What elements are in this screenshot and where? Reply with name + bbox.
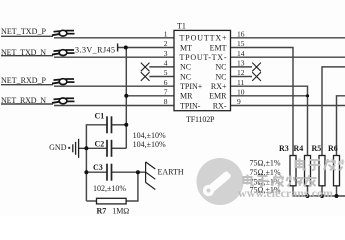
svg-text:EARTH: EARTH <box>158 168 184 177</box>
wire pin15 <box>231 48 294 156</box>
svg-text:TPOUT-TX-: TPOUT-TX- <box>180 53 227 62</box>
wire NET_TXD_P row1 left <box>1 35 53 37</box>
svg-text:TPIN+: TPIN+ <box>180 82 203 91</box>
svg-text:RX+: RX+ <box>211 82 227 91</box>
op-amp U1 : IC body T1 <box>174 30 231 110</box>
svg-text:1: 1 <box>164 30 168 39</box>
wire C1 right <box>112 124 127 126</box>
wire bottom rail <box>293 186 345 196</box>
wire NET_RXD_N row8 left <box>1 103 53 105</box>
svg-text:R3: R3 <box>279 144 289 153</box>
no-connect X pin4 <box>141 63 150 72</box>
pin names inside IC <box>180 34 228 111</box>
no-connect X pin12 <box>252 72 261 81</box>
wire pin14 to right edge <box>231 56 345 58</box>
wire R5 bottom <box>321 186 323 196</box>
coupling symbol row6 <box>52 79 75 85</box>
svg-text:3.3V_RJ45: 3.3V_RJ45 <box>75 46 115 55</box>
node pin10 tap <box>306 94 309 97</box>
wire C2 left <box>86 147 107 149</box>
wire pin16 to right edge <box>231 37 345 39</box>
svg-text:GND: GND <box>49 143 67 152</box>
wire net R6 from right edge <box>337 96 345 156</box>
svg-text:TF1102P: TF1102P <box>186 115 215 124</box>
svg-text:102,±10%: 102,±10% <box>93 184 126 193</box>
svg-text:TPIN-: TPIN- <box>180 101 201 110</box>
resistor R7 body <box>97 198 127 204</box>
wire pin11 <box>231 86 308 155</box>
resistor R6 body <box>334 156 340 186</box>
wire pin4 stub <box>149 66 174 68</box>
wire C3 left <box>86 171 107 173</box>
wire pin5 stub <box>149 76 174 78</box>
node 3.3V tap <box>124 46 128 50</box>
svg-text:NET_RXD_N: NET_RXD_N <box>1 96 46 105</box>
node rail R6 <box>335 194 339 198</box>
svg-text:www.elecrans.com: www.elecrans.com <box>238 186 333 200</box>
svg-text:NET_TXD_N: NET_TXD_N <box>1 48 46 57</box>
coupling symbol row3 <box>52 50 75 56</box>
wire 3.3V to pin2 <box>118 47 174 49</box>
resistor R3 body <box>290 156 296 186</box>
node C3 right <box>136 170 140 174</box>
watermark logo circle <box>197 158 244 205</box>
svg-text:R5: R5 <box>312 144 322 153</box>
svg-text:NC: NC <box>180 72 191 81</box>
svg-text:R4: R4 <box>294 144 304 153</box>
power port 3.3V_RJ45 bar <box>117 44 119 52</box>
node C2 left GND <box>84 146 88 150</box>
svg-text:7: 7 <box>164 88 168 97</box>
svg-text:1MΩ: 1MΩ <box>112 207 129 216</box>
capacitor C2 <box>107 140 112 157</box>
svg-text:NC: NC <box>180 63 191 72</box>
wire C3 right to earth <box>112 171 146 173</box>
svg-text:RX-: RX- <box>213 101 227 110</box>
coupling symbol row1 <box>52 30 75 36</box>
wire 3.3V vertical <box>125 48 127 149</box>
svg-text:C2: C2 <box>95 139 105 148</box>
node rail R4 <box>306 194 310 198</box>
svg-text:6: 6 <box>164 78 168 87</box>
wire row3 to pin3 <box>54 56 174 58</box>
svg-text:15: 15 <box>237 39 245 48</box>
svg-text:C3: C3 <box>93 163 103 172</box>
svg-text:C1: C1 <box>95 112 105 121</box>
svg-text:NET_TXD_P: NET_TXD_P <box>1 27 47 36</box>
svg-text:T1: T1 <box>177 22 186 31</box>
svg-text:104,±10%: 104,±10% <box>133 131 166 140</box>
wire net R5 from right edge <box>322 67 345 156</box>
wire node to pin7 <box>126 95 174 97</box>
pin numbers right <box>237 30 245 107</box>
resistor R5 body <box>319 156 325 186</box>
wire pin13 stub <box>231 66 253 68</box>
wire pin10 <box>231 95 308 97</box>
wire R7 right <box>126 172 138 201</box>
svg-text:NET_RXD_P: NET_RXD_P <box>1 76 47 85</box>
svg-text:5: 5 <box>164 68 168 77</box>
capacitor C3 <box>107 164 112 181</box>
wire R7 left <box>86 200 96 202</box>
svg-text:75Ω,±1%: 75Ω,±1% <box>250 159 281 168</box>
resistor R4 body <box>305 156 311 186</box>
wire R4 bottom <box>307 186 309 196</box>
svg-text:NC: NC <box>215 63 226 72</box>
svg-text:11: 11 <box>237 78 244 87</box>
earth EARTH symbol <box>146 162 156 190</box>
wire pin12 stub <box>231 76 253 78</box>
svg-text:R6: R6 <box>328 144 338 153</box>
svg-text:MT: MT <box>180 43 192 52</box>
svg-text:NC: NC <box>215 72 226 81</box>
svg-text:R7: R7 <box>97 207 107 216</box>
node C1 right <box>124 123 128 127</box>
svg-text:MR: MR <box>180 92 193 101</box>
node pin7 tap <box>124 94 128 98</box>
node C3 left <box>84 170 88 174</box>
svg-text:104,±10%: 104,±10% <box>133 140 166 149</box>
coupling symbol row8 <box>52 98 75 104</box>
svg-text:TPOUTTX+: TPOUTTX+ <box>180 34 227 43</box>
svg-text:16: 16 <box>237 30 245 39</box>
watermark CJK row A duplicate <box>296 159 345 171</box>
no-connect X pin5 <box>141 72 150 81</box>
pin numbers left <box>164 30 168 107</box>
svg-text:12: 12 <box>237 68 245 77</box>
svg-text:4: 4 <box>164 59 168 68</box>
wire NET_RXD_P row6 left <box>1 84 53 86</box>
svg-text:13: 13 <box>237 59 245 68</box>
svg-text:3: 3 <box>164 49 168 58</box>
wire row6 to pin6 <box>54 85 174 87</box>
svg-text:2: 2 <box>164 39 168 48</box>
svg-text:EMT: EMT <box>210 43 227 52</box>
wire NET_TXD_N row3 left <box>1 55 53 57</box>
svg-text:14: 14 <box>237 49 245 58</box>
wire C1 left <box>86 125 107 149</box>
svg-text:8: 8 <box>164 97 168 106</box>
capacitor C1 <box>107 116 112 133</box>
wire row8 to pin8 <box>54 105 174 107</box>
ground GND symbol <box>68 139 86 158</box>
wire C2 right <box>112 147 127 149</box>
node rail R5 <box>320 194 324 198</box>
wire R6 bottom <box>336 186 338 196</box>
svg-text:EMR: EMR <box>209 92 227 101</box>
wire pin9 to right edge <box>231 105 345 107</box>
wire gnd bus <box>85 148 87 201</box>
wire row1 to pin1 <box>54 37 174 39</box>
svg-text:9: 9 <box>237 97 241 106</box>
no-connect X pin13 <box>252 63 261 72</box>
svg-text:10: 10 <box>237 88 245 97</box>
